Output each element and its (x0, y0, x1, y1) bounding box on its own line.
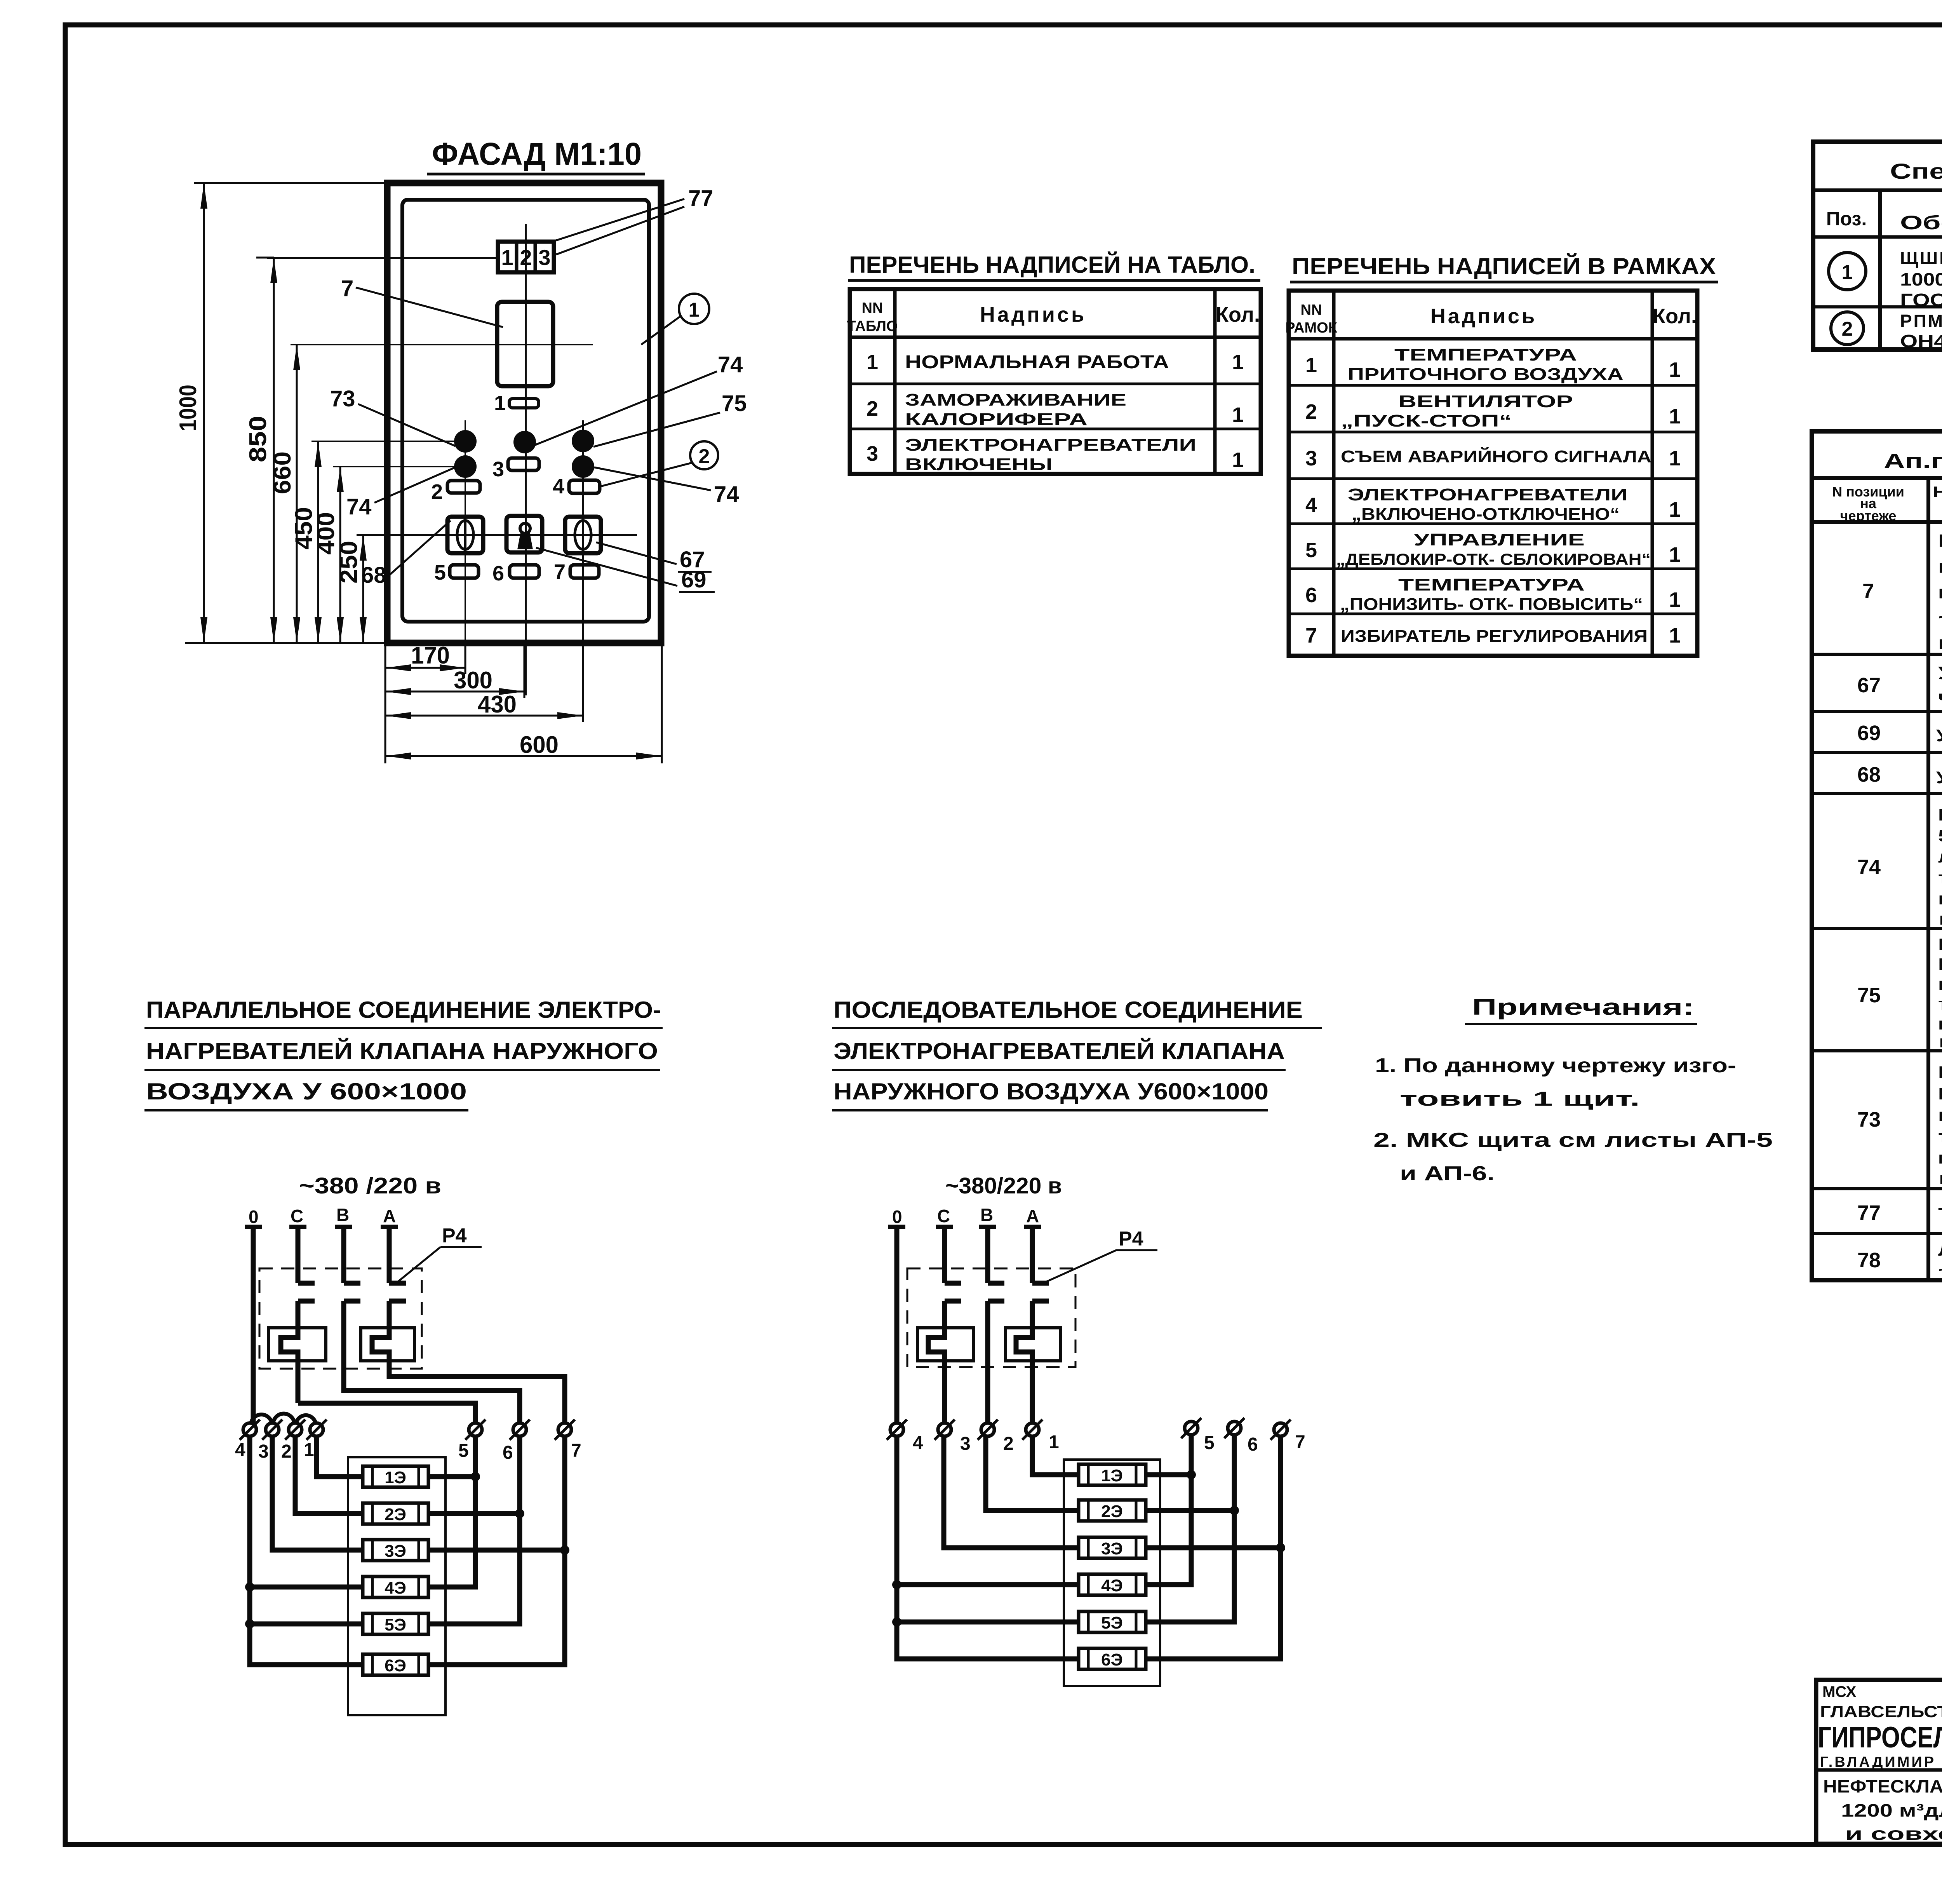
svg-text:3: 3 (960, 1434, 971, 1454)
heater element 3Э (363, 1540, 428, 1561)
svg-text:НЕФТЕСКЛАД ЕМКОСТЬЮ: НЕФТЕСКЛАД ЕМКОСТЬЮ (1823, 1776, 1942, 1796)
title block grid (1816, 1680, 1942, 1844)
wire 3Э to terminal7 bus and 6Э (428, 1436, 569, 1665)
svg-text:3: 3 (1305, 447, 1317, 470)
svg-text:7: 7 (554, 560, 566, 584)
svg-text:69: 69 (681, 567, 706, 592)
position balloon 2 (600, 441, 718, 486)
svg-text:Кнопка, исполнение 3: Кнопка, исполнение 3 (1938, 1063, 1942, 1082)
svg-text:2: 2 (520, 245, 532, 270)
specification row 2: frame РПМ-55 (1831, 311, 1942, 353)
svg-text:~220в 10вт цоколь 2Ш-15: ~220в 10вт цоколь 2Ш-15 (1938, 1261, 1942, 1280)
svg-text:5Э: 5Э (385, 1615, 406, 1634)
svg-text:ТЕМПЕРАТУРА: ТЕМПЕРАТУРА (1394, 345, 1577, 364)
wire terminal 1 to 1Э (317, 1436, 363, 1477)
wire A to terminal 7 (389, 1361, 565, 1423)
apparatus row 67: universal switch (1857, 654, 1942, 707)
terminal 4 (235, 1420, 260, 1460)
light board tablo 77 (1|2|3) (498, 242, 554, 272)
svg-text:74: 74 (718, 352, 743, 377)
contactor contact C (series) (945, 1283, 961, 1301)
svg-text:5: 5 (1305, 538, 1317, 562)
apparatus row 68: universal switch (1857, 763, 1942, 787)
svg-text:7: 7 (1295, 1432, 1305, 1453)
svg-text:78: 78 (1857, 1249, 1881, 1272)
contactor P4 dashed box (series) (907, 1268, 1075, 1367)
svg-text:чатель, надпись N24: чатель, надпись N24 (1938, 687, 1942, 707)
svg-text:ВКЛЮЧЕНЫ: ВКЛЮЧЕНЫ (905, 455, 1053, 474)
svg-text:77: 77 (1857, 1201, 1881, 1225)
svg-text:„ВКЛЮЧЕНО-ОТКЛЮЧЕНО“: „ВКЛЮЧЕНО-ОТКЛЮЧЕНО“ (1352, 505, 1620, 524)
key switch 69 (middle) (506, 516, 542, 552)
svg-text:73: 73 (330, 386, 355, 411)
svg-text:2: 2 (1305, 400, 1317, 423)
thermal element on C (series) (917, 1301, 974, 1423)
terminal 7 (series) (1270, 1420, 1305, 1453)
terminal 2 (281, 1420, 305, 1462)
thermal element on A (series) (1006, 1301, 1060, 1423)
svg-text:600: 600 (520, 732, 559, 758)
heater element 6Э (363, 1654, 428, 1675)
svg-text:2Э: 2Э (1101, 1502, 1123, 1521)
svg-text:ЗАМОРАЖИВАНИЕ: ЗАМОРАЖИВАНИЕ (905, 390, 1126, 409)
svg-text:67: 67 (1857, 674, 1881, 697)
indicator lamp left bottom (74) (454, 455, 477, 478)
svg-text:1000 × 600 × 500: 1000 × 600 × 500 (1900, 269, 1942, 289)
wire phase A upper (381, 1227, 398, 1283)
heater element 4Э (series) (1079, 1574, 1146, 1595)
wire terminal 3 to 3Э (series) (944, 1436, 1079, 1548)
leader label 74 right-mid (594, 467, 739, 507)
svg-text:2: 2 (867, 397, 878, 420)
svg-text:полупроводниковый, трех-: полупроводниковый, трех- (1938, 556, 1942, 577)
svg-text:ОН4-347-65: ОН4-347-65 (1900, 331, 1942, 351)
svg-text:75: 75 (722, 391, 747, 416)
svg-text:и совхозов: и совхозов (1845, 1824, 1942, 1844)
svg-text:С: С (937, 1206, 950, 1226)
svg-text:ВЕНТИЛЯТОР: ВЕНТИЛЯТОР (1398, 392, 1573, 411)
dimension 300 (385, 643, 524, 698)
svg-text:ПРИТОЧНОГО ВОЗДУХА: ПРИТОЧНОГО ВОЗДУХА (1348, 365, 1624, 384)
svg-text:2Э: 2Э (385, 1505, 406, 1524)
svg-text:~380 /220 в: ~380 /220 в (299, 1173, 441, 1198)
svg-text:ВОЗДУХА У 600×1000: ВОЗДУХА У 600×1000 (146, 1078, 467, 1104)
leader label 77 (555, 186, 713, 254)
svg-text:Универсальный переклю-: Универсальный переклю- (1938, 663, 1942, 683)
svg-text:ПЕРЕЧЕНЬ НАДПИСЕЙ НА ТАБЛО.: ПЕРЕЧЕНЬ НАДПИСЕЙ НА ТАБЛО. (849, 252, 1255, 278)
svg-text:1Э: 1Э (1101, 1466, 1123, 1485)
table: list of inscriptions on light board (text) (847, 300, 1260, 474)
svg-text:контактами: контактами (1938, 909, 1942, 928)
leader label 74 bottom-left (346, 467, 455, 519)
svg-text:„ПУСК-СТОП“: „ПУСК-СТОП“ (1341, 411, 1512, 430)
svg-text:Р4: Р4 (442, 1225, 467, 1247)
svg-text:Универсальный переключатель: Универсальный переключатель (1936, 726, 1942, 745)
dimension 450 (291, 441, 322, 643)
svg-text:МСХ: МСХ (1822, 1683, 1857, 1700)
svg-text:позиционный дистанционный: позиционный дистанционный (1938, 582, 1942, 602)
svg-text:цилиндрический черного цве-: цилиндрический черного цве- (1938, 975, 1942, 994)
table: list of inscriptions in frames (title) (1290, 253, 1718, 282)
svg-text:526 007-65 Толкатель ци-: 526 007-65 Толкатель ци- (1938, 826, 1942, 845)
svg-text:77: 77 (688, 186, 713, 211)
label P4 (397, 1225, 482, 1283)
leader label 74 top-right (534, 352, 743, 445)
wire terminal 3 to 3Э (272, 1436, 363, 1550)
svg-text:1. По данному чертежу изго-: 1. По данному чертежу изго- (1375, 1054, 1736, 1077)
svg-text:1: 1 (1842, 261, 1853, 284)
svg-text:Универсальный переключатель: Универсальный переключатель (1936, 768, 1942, 787)
heater element 1Э (363, 1466, 428, 1487)
leader label 67 (596, 542, 712, 572)
notes title (1465, 995, 1697, 1024)
net label ~380/220 V (series) (945, 1173, 1062, 1198)
svg-text:Примечания:: Примечания: (1472, 995, 1694, 1020)
apparatus row 73: black button ПУСК КЕ-011 (1857, 1063, 1942, 1188)
indicator lamp left top (73) (454, 430, 477, 453)
svg-text:250: 250 (336, 541, 362, 584)
terminal 3 (series) (934, 1420, 971, 1454)
svg-text:6Э: 6Э (1101, 1650, 1123, 1669)
svg-text:Р4: Р4 (1119, 1228, 1143, 1250)
svg-text:5Э: 5Э (1101, 1613, 1123, 1632)
wire phase C upper (289, 1227, 306, 1283)
svg-text:68: 68 (361, 563, 386, 588)
dimension extension bottom (185, 642, 388, 644)
apparatus row 7: temperature regulator (1862, 531, 1942, 653)
specification table for panels and frames (grid) (1813, 142, 1942, 350)
svg-text:1Э: 1Э (385, 1468, 406, 1487)
svg-text:1: 1 (689, 299, 700, 321)
centerline right column (582, 420, 584, 719)
specification table title (1890, 159, 1942, 183)
terminal 2 (series) (978, 1420, 1014, 1454)
apparatus table header (1832, 483, 1942, 524)
svg-text:300: 300 (454, 667, 492, 694)
wire phase B upper (series) (979, 1227, 996, 1283)
svg-text:1: 1 (494, 392, 506, 415)
svg-text:С: С (291, 1206, 303, 1226)
svg-text:цилиндрический черного цве: цилиндрический черного цве (1938, 1106, 1942, 1125)
svg-text:2: 2 (431, 480, 443, 503)
position balloon 1 (641, 294, 709, 345)
svg-text:Г.ВЛАДИМИР: Г.ВЛАДИМИР (1820, 1754, 1936, 1770)
svg-text:1: 1 (867, 350, 878, 374)
centerline tablo row (267, 257, 498, 259)
heater element 3Э (series) (1079, 1537, 1146, 1558)
heater element 6Э (series) (1079, 1648, 1146, 1669)
svg-text:660: 660 (269, 451, 296, 494)
wire phase A upper (series) (1024, 1227, 1041, 1283)
neutral bus arcs over terminals (251, 1414, 316, 1423)
svg-text:1200 м³для колхозов: 1200 м³для колхозов (1841, 1800, 1942, 1820)
universal switch 68 (left) (447, 517, 483, 553)
svg-text:3Э: 3Э (385, 1542, 406, 1561)
dimension 660 (269, 345, 300, 643)
svg-text:69: 69 (1857, 721, 1881, 745)
neutral bus to 4Э 5Э 6Э (series) (892, 1436, 1079, 1659)
svg-text:1: 1 (1305, 354, 1317, 377)
svg-text:6Э: 6Э (385, 1656, 406, 1675)
contactor contact A (389, 1283, 406, 1301)
label frame 6 (492, 562, 539, 585)
svg-text:3: 3 (867, 442, 878, 465)
svg-text:1: 1 (1669, 405, 1681, 428)
panel door inner outline (402, 200, 649, 622)
wire terminal 2 to 2Э (series) (986, 1436, 1079, 1510)
dimension extension top (194, 182, 387, 184)
svg-text:430: 430 (478, 691, 517, 718)
heater element 2Э (series) (1079, 1500, 1146, 1521)
heater element 1Э (series) (1079, 1464, 1146, 1485)
svg-text:7: 7 (571, 1441, 581, 1461)
wire phase C upper (series) (936, 1227, 953, 1283)
svg-text:1: 1 (304, 1440, 314, 1460)
heater element 5Э (363, 1613, 428, 1634)
apparatus table title (1884, 449, 1942, 473)
svg-text:Надпись: Надпись (980, 303, 1086, 326)
svg-text:писью „стоп“ с 1н.о.и 1н.з.: писью „стоп“ с 1н.о.и 1н.з. (1938, 889, 1942, 908)
svg-text:2. МКС щита см листы АП-5: 2. МКС щита см листы АП-5 (1373, 1129, 1773, 1151)
svg-text:75: 75 (1857, 984, 1881, 1007)
svg-text:0: 0 (249, 1207, 259, 1227)
table: list of inscriptions in frames (grid) (1289, 291, 1697, 656)
apparatus row 69: universal switch (1857, 721, 1942, 745)
leader label 68 (361, 521, 451, 588)
svg-text:писью „пуск“с 1 н.о.и 1 н.з.: писью „пуск“с 1 н.о.и 1 н.з. (1938, 1148, 1942, 1167)
terminal 4 (series) (887, 1420, 923, 1453)
svg-text:6: 6 (503, 1442, 513, 1463)
label frame 1 (494, 392, 539, 415)
svg-text:1: 1 (501, 245, 513, 270)
svg-text:ФАСАД М1:10: ФАСАД М1:10 (432, 136, 642, 172)
dimension 170 (385, 642, 465, 763)
svg-text:товить 1 щит.: товить 1 щит. (1400, 1088, 1640, 1110)
title block org cell (1818, 1683, 1942, 1770)
leader label 7 (341, 276, 503, 327)
wire 1Э to terminal5 bus and 4Э (428, 1436, 480, 1587)
svg-text:1000: 1000 (175, 385, 202, 431)
apparatus table (grid) (1812, 431, 1942, 1280)
svg-text:6: 6 (492, 562, 504, 585)
svg-text:4: 4 (553, 475, 564, 498)
centerline regulator row (291, 344, 593, 345)
svg-text:ЭЛЕКТРОНАГРЕВАТЕЛЕЙ КЛАПАНА: ЭЛЕКТРОНАГРЕВАТЕЛЕЙ КЛАПАНА (834, 1038, 1285, 1064)
svg-text:6: 6 (1305, 584, 1317, 607)
svg-text:МРТУ 16 526 007-65 Толкатель: МРТУ 16 526 007-65 Толкатель (1938, 1084, 1942, 1103)
terminal 5 (series) (1181, 1418, 1215, 1453)
svg-text:4: 4 (913, 1433, 923, 1453)
svg-text:1: 1 (1232, 403, 1244, 427)
wire neutral 0 (series) (888, 1227, 905, 1423)
svg-text:Спецификация на щиты и рам: Спецификация на щиты и рамки (1890, 159, 1942, 183)
svg-text:НАРУЖНОГО ВОЗДУХА У600×1000: НАРУЖНОГО ВОЗДУХА У600×1000 (834, 1078, 1269, 1104)
contactor contact B (series) (988, 1283, 1004, 1301)
svg-text:4: 4 (235, 1440, 245, 1460)
note 2 line 1 (1373, 1129, 1773, 1151)
svg-text:А: А (1026, 1206, 1039, 1226)
centerline middle column (525, 224, 527, 695)
svg-text:РАМОК: РАМОК (1285, 320, 1338, 336)
svg-text:850: 850 (245, 416, 271, 462)
heater element 5Э (series) (1079, 1611, 1146, 1632)
svg-text:1: 1 (1669, 358, 1681, 381)
series connection schematic title (832, 997, 1322, 1110)
wire B lower (series) (985, 1301, 990, 1423)
svg-text:74: 74 (346, 494, 372, 519)
svg-text:1: 1 (1669, 498, 1681, 521)
svg-text:NN: NN (1301, 302, 1322, 318)
svg-text:4Э: 4Э (385, 1578, 406, 1597)
contactor contact A (series) (1032, 1283, 1049, 1301)
svg-text:2: 2 (699, 445, 710, 468)
dimension 850 (245, 258, 277, 643)
svg-text:контактами: контактами (1938, 1169, 1942, 1188)
svg-text:РПМ-55: РПМ-55 (1900, 311, 1942, 331)
svg-text:та с самовозвратом с над-: та с самовозвратом с над- (1938, 868, 1942, 887)
label frame 7 (554, 560, 599, 584)
svg-text:2: 2 (281, 1441, 292, 1462)
svg-text:Обозначение: Обозначение (1900, 212, 1942, 233)
centerline switch row (357, 534, 637, 536)
svg-text:3: 3 (492, 458, 504, 481)
dimension 250 (336, 535, 367, 643)
svg-text:УПРАВЛЕНИЕ: УПРАВЛЕНИЕ (1414, 530, 1585, 549)
label frame 3 (492, 458, 539, 481)
terminal 3 (258, 1420, 282, 1462)
svg-text:1: 1 (1669, 447, 1681, 470)
heater element 2Э (363, 1503, 428, 1524)
leader label 73 (330, 386, 455, 446)
specification table header (1826, 201, 1942, 237)
wire terminal 1 to 1Э (series) (1032, 1436, 1079, 1475)
svg-text:0: 0 (892, 1207, 902, 1227)
temperature regulator 7 (497, 302, 553, 386)
svg-text:В: В (980, 1205, 993, 1225)
terminal 6 (503, 1420, 530, 1463)
svg-text:чертеже: чертеже (1840, 508, 1897, 524)
svg-text:1: 1 (1232, 448, 1244, 472)
dimension 430 (385, 643, 583, 722)
contactor contact B (344, 1283, 360, 1301)
table: list of inscriptions in frames (text) (1285, 302, 1697, 647)
net label ~380/220 V (299, 1173, 441, 1198)
svg-text:Наименование и техническая: Наименование и техническая (1933, 484, 1942, 501)
svg-text:170: 170 (411, 642, 450, 669)
svg-text:1: 1 (1232, 350, 1244, 374)
svg-text:и АП-6.: и АП-6. (1400, 1162, 1495, 1185)
indicator lamp middle (74) (513, 431, 536, 453)
svg-text:68: 68 (1857, 763, 1881, 786)
svg-text:74: 74 (714, 482, 739, 507)
svg-text:3: 3 (258, 1441, 269, 1462)
facade title ФАСАД М1:10 (427, 136, 645, 174)
svg-text:1: 1 (1669, 624, 1681, 647)
wire neutral 0 (245, 1227, 262, 1423)
terminal 5 (458, 1420, 486, 1461)
heater block outline (parallel) (348, 1457, 445, 1715)
note 1 line 1 (1375, 1054, 1736, 1077)
svg-text:вания температур +5÷35°С: вания температур +5÷35°С (1938, 632, 1942, 653)
svg-text:писью „пуск“с 1н.о. и 1н.з.: писью „пуск“с 1н.о. и 1н.з. (1938, 1014, 1942, 1033)
svg-text:ЭЛЕКТРОНАГРЕВАТЕЛИ: ЭЛЕКТРОНАГРЕВАТЕЛИ (1348, 485, 1627, 504)
svg-text:ГЛАВСЕЛЬСТРОЙПРОЕКТ: ГЛАВСЕЛЬСТРОЙПРОЕКТ (1820, 1702, 1942, 1721)
svg-text:3: 3 (538, 245, 550, 270)
svg-text:СЪЕМ АВАРИЙНОГО СИГНАЛА: СЪЕМ АВАРИЙНОГО СИГНАЛА (1341, 446, 1651, 466)
svg-text:4Э: 4Э (1101, 1576, 1123, 1595)
label frame 2 (431, 480, 480, 503)
thermal element on C (268, 1301, 326, 1403)
specification row 1: panel ЩШМ (1829, 248, 1942, 310)
centerline left column (465, 420, 466, 673)
wire 2Э to terminal6 and 5Э (series) (1146, 1435, 1239, 1622)
contactor contact C (298, 1283, 315, 1301)
svg-text:5: 5 (434, 561, 446, 584)
label frame 5 (434, 561, 479, 584)
apparatus row 74: red button КЕ-011 (1857, 805, 1942, 928)
terminal 1 (304, 1420, 327, 1460)
svg-text:~380/220 в: ~380/220 в (945, 1173, 1062, 1198)
centerline top lamp row (311, 441, 455, 442)
svg-text:Регулятор температуры: Регулятор температуры (1938, 531, 1942, 551)
svg-text:Кол.: Кол. (1653, 305, 1697, 328)
svg-text:1: 1 (1669, 543, 1681, 566)
svg-text:Лампа цилиндрическая: Лампа цилиндрическая (1938, 1240, 1942, 1259)
svg-text:ГОСТ 3244-68: ГОСТ 3244-68 (1900, 290, 1942, 310)
svg-text:контактами: контактами (1938, 1032, 1942, 1051)
svg-text:ЩШМ: ЩШМ (1900, 248, 1942, 268)
universal switch 67 (right) (565, 517, 601, 553)
leader label 69 (536, 548, 715, 592)
wire 1Э to terminal5 and 4Э (series) (1146, 1435, 1196, 1585)
svg-text:НАГРЕВАТЕЛЕЙ КЛАПАНА НАРУЖНО: НАГРЕВАТЕЛЕЙ КЛАПАНА НАРУЖНОГО (146, 1038, 658, 1064)
contactor P4 dashed box (259, 1268, 422, 1369)
svg-text:7: 7 (1862, 580, 1874, 603)
svg-text:73: 73 (1857, 1108, 1881, 1131)
terminal 7 (555, 1420, 581, 1461)
svg-text:КАЛОРИФЕРА: КАЛОРИФЕРА (905, 410, 1088, 429)
wire B lower to terminal 6 (344, 1301, 520, 1423)
phase labels 0 C B A (series) (892, 1205, 1039, 1227)
panel cabinet outline (387, 183, 661, 643)
svg-text:ПОСЛЕДОВАТЕЛЬНОЕ СОЕДИНЕНИЕ: ПОСЛЕДОВАТЕЛЬНОЕ СОЕДИНЕНИЕ (834, 997, 1303, 1023)
svg-text:Поз.: Поз. (1826, 208, 1867, 230)
title block object cell (1823, 1776, 1942, 1844)
table: list of inscriptions on light board (title) (848, 252, 1260, 280)
svg-text:1: 1 (1049, 1432, 1059, 1453)
table: list of inscriptions on light board (grid) (850, 289, 1261, 474)
indicator lamp right top (75) (572, 430, 594, 452)
centerline bottom lamp row (333, 466, 455, 467)
svg-text:ПАРАЛЛЕЛЬНОЕ СОЕДИНЕНИЕ ЭЛЕК: ПАРАЛЛЕЛЬНОЕ СОЕДИНЕНИЕ ЭЛЕКТРО- (146, 997, 661, 1023)
svg-text:НОРМАЛЬНАЯ РАБОТА: НОРМАЛЬНАЯ РАБОТА (905, 352, 1169, 373)
svg-text:5: 5 (458, 1441, 469, 1461)
svg-text:А: А (383, 1206, 396, 1226)
wire 3Э to terminal7 and 6Э (series) (1146, 1436, 1285, 1659)
svg-text:ИЗБИРАТЕЛЬ РЕГУЛИРОВАНИЯ: ИЗБИРАТЕЛЬ РЕГУЛИРОВАНИЯ (1341, 627, 1648, 646)
svg-text:6: 6 (1248, 1434, 1258, 1455)
svg-text:Надпись: Надпись (1430, 305, 1537, 328)
dimension 600 (385, 643, 662, 763)
thermal element on A (361, 1301, 414, 1361)
dimension 1000 (175, 183, 207, 643)
wire 2Э to terminal6 bus and 5Э (428, 1436, 524, 1624)
terminal 6 (series) (1224, 1418, 1258, 1455)
svg-text:ТЕМПЕРАТУРА: ТЕМПЕРАТУРА (1398, 575, 1585, 594)
svg-text:Ап.паратура, расположенная на: Ап.паратура, расположенная на двери щита… (1884, 449, 1942, 473)
label frame 4 (553, 475, 600, 498)
note 1 line 2 (1400, 1088, 1640, 1110)
